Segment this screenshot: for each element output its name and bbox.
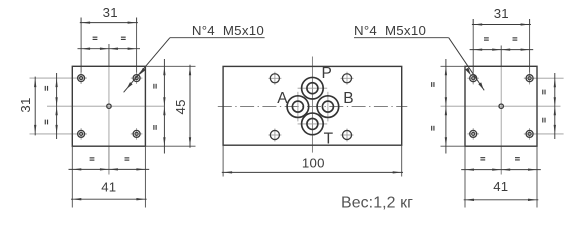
equal marks bottom right view [480, 157, 485, 158]
svg-text:B: B [343, 90, 354, 107]
svg-text:100: 100 [302, 156, 325, 171]
svg-text:31: 31 [494, 6, 509, 21]
split dimension line bottom right view [461, 168, 541, 170]
svg-text:P: P [322, 65, 333, 82]
bolt hole top-right middle [341, 77, 354, 79]
equal marks left side [45, 86, 46, 91]
dimension line 41 left view [71, 198, 147, 200]
svg-text:Вес:1,2 кг: Вес:1,2 кг [341, 194, 413, 211]
centerline vertical columns right view [473, 19, 529, 85]
split dimension line top left view [78, 48, 141, 50]
split dimension line right side left view [163, 59, 165, 154]
tapped hole top-left [75, 77, 87, 79]
port B [327, 92, 329, 122]
center pilot hole right view [499, 104, 503, 108]
bolt hole bottom-right middle [341, 134, 354, 136]
centerline vertical center left view [108, 44, 110, 175]
bolt hole bottom-left middle [268, 134, 281, 136]
svg-text:41: 41 [101, 179, 116, 194]
centerline vertical center right view [500, 46, 502, 175]
plate outline left view [72, 66, 145, 146]
tapped hole bottom-left [75, 133, 87, 135]
split dimension line top right view [470, 48, 534, 50]
centerline horizontal center right view [441, 105, 561, 107]
port A [297, 92, 299, 122]
svg-text:31: 31 [103, 5, 118, 20]
split dimension line bottom left view [69, 168, 150, 170]
extension lines left side right view [441, 66, 466, 146]
centerline vertical middle view [311, 57, 313, 153]
extension lines top dim right view [473, 19, 529, 25]
split dimension line left side right view [445, 59, 447, 154]
plate outline middle view [223, 66, 402, 145]
center pilot hole left view [107, 104, 111, 108]
tapped hole bottom-right right view [524, 133, 536, 135]
leader arrow left at hole [139, 68, 145, 75]
port P [298, 87, 328, 89]
tapped hole bottom-left right view [467, 133, 479, 135]
plate outline right view [465, 66, 537, 146]
leader arrow left end [127, 82, 133, 89]
centerline horizontal center left view [47, 105, 164, 107]
dimension line 31 left side [34, 77, 36, 136]
tapped hole top-right [131, 77, 143, 79]
extension lines right side left view [145, 66, 195, 146]
split dimension line left side [55, 73, 57, 139]
port T [298, 123, 328, 125]
equal marks bottom left view [90, 157, 95, 158]
bolt hole top-left middle [268, 77, 281, 79]
svg-text:N°4 M5x10: N°4 M5x10 [354, 23, 426, 38]
extension lines bottom right view [465, 146, 537, 207]
dimension line 100 [222, 171, 403, 173]
extension lines top dim left view [81, 18, 137, 23]
extension lines bottom left view [72, 146, 145, 207]
dimension line 41 right view [464, 199, 539, 201]
centerline horizontal rows right view [524, 78, 564, 134]
svg-text:N°4 M5x10: N°4 M5x10 [192, 23, 264, 38]
leader arrow right at hole [465, 68, 471, 76]
dimension line 45 left view [189, 65, 191, 148]
dimension line 31 right view [472, 23, 531, 25]
svg-text:31: 31 [18, 97, 33, 112]
svg-text:41: 41 [493, 179, 508, 194]
centerline vertical columns left view [81, 18, 137, 85]
leader line left [124, 38, 265, 93]
leader line right [354, 38, 484, 91]
centerline horizontal dash-dot middle view [218, 106, 407, 108]
dimension line 31 top left view [80, 21, 138, 23]
equal marks right side right view [542, 90, 543, 95]
svg-text:T: T [324, 130, 334, 147]
tapped hole top-left right view [467, 77, 479, 79]
split dimension line right side right view [554, 73, 556, 139]
equal marks top right view [484, 37, 489, 38]
extension lines dim 100 [223, 145, 402, 176]
tapped hole bottom-right [131, 133, 143, 135]
tapped hole top-right right view [524, 77, 536, 79]
equal marks left side right view [431, 82, 432, 87]
leader arrow right end [478, 82, 483, 89]
equal marks top left view [93, 37, 98, 38]
svg-text:A: A [277, 90, 288, 107]
centerline horizontal rows left view [30, 78, 87, 134]
equal marks right side left view [153, 84, 154, 89]
svg-text:45: 45 [173, 99, 188, 114]
